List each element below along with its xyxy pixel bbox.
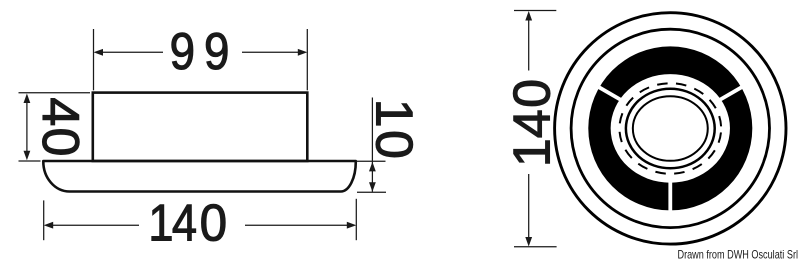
svg-text:1: 1 bbox=[504, 138, 562, 167]
svg-text:0: 0 bbox=[31, 128, 89, 157]
svg-text:9: 9 bbox=[170, 23, 195, 80]
svg-text:9: 9 bbox=[204, 23, 229, 80]
svg-text:Drawn from DWH Osculati Srl: Drawn from DWH Osculati Srl bbox=[678, 248, 799, 261]
svg-text:0: 0 bbox=[365, 130, 423, 159]
svg-text:4: 4 bbox=[172, 194, 197, 252]
svg-text:1: 1 bbox=[148, 194, 173, 252]
svg-text:4: 4 bbox=[504, 109, 562, 138]
svg-text:0: 0 bbox=[504, 79, 562, 108]
svg-text:4: 4 bbox=[31, 97, 89, 126]
svg-text:0: 0 bbox=[200, 193, 227, 251]
svg-text:1: 1 bbox=[365, 99, 423, 128]
